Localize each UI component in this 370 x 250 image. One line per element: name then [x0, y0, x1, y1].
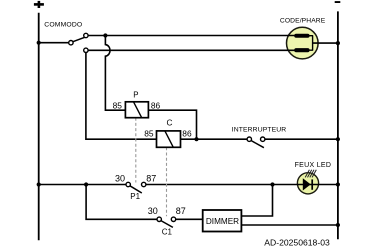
switch commodo throw phare [84, 48, 88, 52]
node bus-commodo [37, 41, 41, 45]
wire commodo code output to lamp [88, 35, 294, 37]
contact P1 left [126, 182, 130, 186]
lamp right bracket [309, 36, 312, 51]
switch commodo common contact [69, 41, 73, 45]
LED triangle [303, 178, 311, 190]
svg-text:30: 30 [148, 206, 158, 216]
node lamp-bus [336, 41, 340, 45]
LED light rays hatches [305, 170, 316, 178]
contact C1 right [171, 217, 175, 221]
svg-text:COMMODO: COMMODO [44, 22, 82, 29]
mechanical link relay P to contact P1 (dashed) [135, 118, 137, 183]
switch interrupteur right contact [261, 137, 265, 141]
svg-text:C: C [167, 118, 173, 128]
svg-text:FEUX LED: FEUX LED [295, 162, 332, 169]
svg-text:86: 86 [151, 100, 161, 110]
wire node A to relay P pin 85 (with hop over phare wire) [105, 36, 125, 111]
node branch to C1 [84, 182, 88, 186]
node DIMMER-LED junction [270, 182, 274, 186]
node LED-bus [336, 182, 340, 186]
LED cathode bar [311, 179, 313, 189]
contact P1 lever [130, 186, 142, 193]
wire left plus bus [38, 13, 40, 240]
wire relay P pin 86 to junction [148, 110, 196, 139]
svg-text:CODE/PHARE: CODE/PHARE [280, 17, 326, 24]
svg-text:30: 30 [115, 174, 125, 184]
DIMMER box [203, 210, 242, 232]
lamp filament bar upper [294, 34, 309, 38]
switch commodo lever [73, 37, 86, 42]
wire DIMMER output up to LED feed junction [241, 185, 272, 217]
node DIMMER-minus bus [336, 223, 340, 227]
svg-text:P: P [133, 91, 138, 100]
svg-text:86: 86 [182, 129, 192, 139]
wire commodo phare output to lamp [88, 49, 294, 51]
LED FEUX LED body [297, 173, 318, 194]
wire C1 contact to DIMMER input [176, 218, 203, 220]
node interrupteur-bus [336, 137, 340, 141]
mechanical link relay C to contact C1 (dashed) [166, 147, 168, 216]
svg-text:87: 87 [146, 174, 156, 184]
svg-text:85: 85 [113, 100, 123, 110]
relay coil P [125, 102, 148, 118]
wire interrupteur to minus bus [265, 138, 338, 140]
battery plus terminal [34, 1, 44, 8]
wire bus to commodo common [39, 42, 69, 44]
svg-text:C1: C1 [162, 228, 173, 237]
node P86-C86 junction [194, 137, 198, 141]
wire commodo phare throw down to relay C pin 85 [86, 53, 157, 140]
contact P1 right [142, 182, 146, 186]
contact C1 lever [161, 221, 173, 228]
switch commodo throw code [84, 33, 88, 37]
node bus-P1 wire [37, 182, 41, 186]
wire plus bus to P1 contact and on through FEUX LED to minus bus [39, 184, 126, 186]
wire lamp to minus bus [313, 42, 338, 44]
wire right minus bus [337, 11, 339, 239]
svg-text:DIMMER: DIMMER [206, 217, 239, 226]
wire relay C pin 86 to interrupteur [181, 138, 248, 140]
svg-text:P1: P1 [130, 192, 140, 201]
node A (code wire junction) [103, 33, 107, 37]
svg-text:87: 87 [176, 206, 186, 216]
lamp filament bar lower [294, 48, 309, 52]
wire DIMMER ground to minus bus [241, 224, 338, 226]
svg-text:INTERRUPTEUR: INTERRUPTEUR [232, 126, 286, 133]
switch interrupteur left contact [247, 137, 251, 141]
contact C1 left [157, 217, 161, 221]
svg-text:85: 85 [144, 129, 154, 139]
wire branch down to C1 contact row [86, 185, 157, 220]
relay coil C [157, 131, 181, 147]
svg-text:AD-20250618-03: AD-20250618-03 [264, 238, 330, 248]
battery minus terminal [335, 1, 341, 3]
lamp CODE/PHARE body [287, 27, 319, 59]
switch interrupteur lever [251, 141, 264, 148]
